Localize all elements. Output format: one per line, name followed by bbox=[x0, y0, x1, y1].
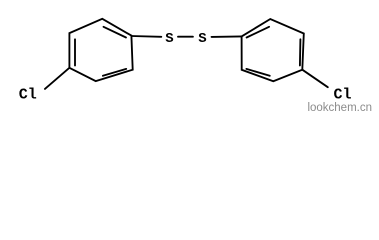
double bond inner line left ring left edge bbox=[74, 39, 76, 65]
svg-text:Cl: Cl bbox=[334, 87, 352, 104]
bond S1-S2 bbox=[178, 36, 193, 38]
bond right ring to Cl bbox=[302, 70, 328, 88]
bond S2 to right ring bbox=[212, 35, 242, 38]
svg-text:lookchem.cn: lookchem.cn bbox=[307, 102, 372, 114]
benzene ring right (outline) bbox=[242, 19, 304, 81]
double bond inner line right ring right edge bbox=[299, 39, 302, 65]
svg-text:Cl: Cl bbox=[19, 87, 37, 104]
bond left ring to S1 bbox=[131, 35, 161, 38]
svg-text:S: S bbox=[165, 31, 173, 47]
double bond inner line right ring bottom-left edge bbox=[246, 69, 269, 76]
benzene ring left (outline) bbox=[69, 19, 132, 81]
bond Cl to left ring bbox=[45, 68, 70, 89]
double bond inner line right ring top-left edge bbox=[247, 27, 270, 38]
double bond inner line left ring top-right edge bbox=[104, 27, 127, 38]
double bond inner line left ring bottom-right edge bbox=[103, 69, 126, 76]
svg-text:S: S bbox=[198, 31, 206, 47]
